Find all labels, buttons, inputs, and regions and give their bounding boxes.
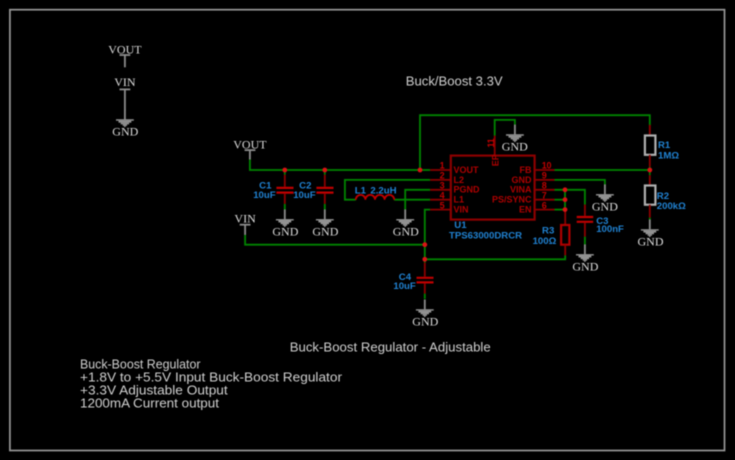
U1 pin 1 VOUT bbox=[430, 161, 479, 175]
svg-text:8: 8 bbox=[542, 181, 547, 191]
junction C4 / R3 bbox=[422, 257, 427, 262]
junction at C2 tap bbox=[322, 168, 327, 173]
power symbol VIN (main) bbox=[234, 211, 256, 235]
wire C4 to R3 bottom bbox=[425, 255, 565, 259]
IC U1 TPS63000DRCR body bbox=[449, 156, 535, 242]
svg-text:200kΩ: 200kΩ bbox=[657, 201, 686, 212]
wire C4 lower link bbox=[424, 294, 426, 299]
svg-text:PGND: PGND bbox=[454, 185, 481, 195]
capacitor C4 bbox=[393, 263, 433, 294]
svg-text:10uF: 10uF bbox=[393, 281, 416, 292]
svg-text:Buck/Boost 3.3V: Buck/Boost 3.3V bbox=[406, 73, 503, 88]
wire inductor to L1 pin bbox=[394, 199, 430, 201]
junction at C1 tap bbox=[282, 168, 287, 173]
U1 pin 5 VIN bbox=[430, 200, 468, 214]
description text block bbox=[80, 356, 343, 410]
U1 pin 3 PGND bbox=[430, 181, 480, 195]
ground GND (C1) bbox=[272, 209, 298, 238]
junction VIN rail / C4 bbox=[422, 242, 427, 247]
ground GND (pin9) bbox=[592, 184, 618, 213]
svg-text:VINA: VINA bbox=[510, 185, 532, 195]
svg-text:VOUT: VOUT bbox=[454, 165, 480, 175]
capacitor C2 bbox=[293, 170, 333, 204]
junction PS/SYNC bbox=[563, 197, 568, 202]
svg-text:VIN: VIN bbox=[114, 75, 136, 89]
wire EN stub bbox=[555, 209, 566, 211]
svg-text:GND: GND bbox=[638, 235, 664, 249]
U1 pin 9 GND bbox=[512, 171, 555, 185]
wire L2 to inductor bbox=[345, 180, 430, 200]
ground GND (R2) bbox=[638, 220, 664, 249]
capacitor C3 bbox=[577, 205, 624, 237]
svg-text:EP: EP bbox=[490, 154, 500, 166]
svg-text:9: 9 bbox=[542, 171, 547, 181]
svg-text:TPS63000DRCR: TPS63000DRCR bbox=[449, 230, 522, 241]
wire EP pad to ground bbox=[495, 120, 515, 136]
svg-text:GND: GND bbox=[572, 260, 598, 274]
ground GND (C4) bbox=[412, 300, 438, 329]
svg-text:2.2uH: 2.2uH bbox=[370, 186, 396, 197]
wire VINA to C3 bbox=[555, 190, 585, 205]
ground GND (EP pad) bbox=[502, 125, 528, 154]
svg-text:GND: GND bbox=[512, 175, 533, 185]
U1 pin 2 L2 bbox=[430, 171, 464, 185]
power symbol VIN (legend) bbox=[114, 75, 136, 110]
svg-text:FB: FB bbox=[520, 165, 532, 175]
svg-text:100nF: 100nF bbox=[596, 224, 624, 235]
svg-text:EN: EN bbox=[519, 205, 532, 215]
ground GND (PGND pin3) bbox=[393, 209, 419, 238]
svg-text:VIN: VIN bbox=[234, 211, 256, 225]
wire node A up to top rail bbox=[420, 115, 650, 170]
svg-text:L1: L1 bbox=[355, 186, 367, 197]
svg-text:L2: L2 bbox=[454, 175, 465, 185]
power symbol VOUT (main rail) bbox=[233, 138, 267, 160]
svg-text:1: 1 bbox=[440, 161, 445, 171]
power symbol VOUT (legend) bbox=[108, 43, 142, 68]
svg-text:2: 2 bbox=[440, 171, 445, 181]
capacitor C1 bbox=[253, 170, 293, 204]
inductor L1 2.2uH bbox=[355, 186, 397, 200]
wire FB to divider bbox=[555, 169, 650, 171]
svg-text:6: 6 bbox=[542, 200, 547, 210]
svg-text:4: 4 bbox=[440, 190, 445, 200]
svg-text:GND: GND bbox=[112, 125, 138, 139]
svg-text:11: 11 bbox=[486, 138, 496, 147]
svg-text:1200mA Current output: 1200mA Current output bbox=[80, 395, 219, 410]
wire EN chain vertical bbox=[564, 190, 566, 211]
wire R2 lower link bbox=[649, 218, 651, 220]
svg-text:10uF: 10uF bbox=[293, 190, 316, 201]
junction node A (pin1 / top rail) bbox=[418, 168, 423, 173]
wire pin9 GND bbox=[555, 180, 605, 185]
svg-text:GND: GND bbox=[272, 225, 298, 239]
U1 pin 8 VINA bbox=[510, 181, 555, 195]
wire PS/SYNC stub bbox=[555, 199, 566, 201]
junction FB divider bbox=[647, 168, 652, 173]
ground GND (legend) bbox=[112, 110, 138, 139]
svg-text:R1: R1 bbox=[658, 140, 671, 151]
resistor R3 bbox=[533, 211, 570, 255]
junction VINA bbox=[563, 187, 568, 192]
svg-text:GND: GND bbox=[412, 315, 438, 329]
svg-text:Buck-Boost Regulator - Adjusta: Buck-Boost Regulator - Adjustable bbox=[290, 339, 491, 354]
wire PGND to ground bbox=[405, 190, 430, 210]
wire C1 lower link bbox=[284, 204, 286, 210]
svg-text:GND: GND bbox=[592, 199, 618, 213]
svg-text:10: 10 bbox=[542, 161, 552, 171]
svg-text:GND: GND bbox=[502, 140, 528, 154]
svg-text:L1: L1 bbox=[454, 195, 465, 205]
resistor R2 bbox=[645, 170, 686, 218]
wire VIN rail bbox=[245, 235, 425, 245]
wire pin5 VIN riser to C4 bbox=[425, 210, 430, 263]
svg-text:5: 5 bbox=[440, 200, 445, 210]
wire C3 lower link bbox=[584, 237, 586, 245]
svg-text:1MΩ: 1MΩ bbox=[658, 150, 679, 161]
U1 pin 10 FB bbox=[520, 161, 555, 175]
U1 pin 7 PS/SYNC bbox=[492, 190, 555, 204]
ground GND (C2) bbox=[312, 209, 338, 238]
ground GND (C3) bbox=[572, 244, 598, 273]
junction EN bbox=[563, 207, 568, 212]
wire C2 lower link bbox=[324, 204, 326, 210]
svg-text:3: 3 bbox=[440, 181, 445, 191]
U1 pin 6 EN bbox=[519, 200, 555, 214]
svg-text:10uF: 10uF bbox=[253, 190, 276, 201]
svg-text:GND: GND bbox=[393, 225, 419, 239]
U1 pin 4 L1 bbox=[430, 190, 464, 204]
resistor R1 bbox=[645, 125, 679, 170]
svg-text:GND: GND bbox=[312, 225, 338, 239]
svg-text:7: 7 bbox=[542, 190, 547, 200]
svg-text:100Ω: 100Ω bbox=[533, 236, 557, 247]
U1 pin 11 EP bbox=[486, 136, 500, 167]
svg-text:PS/SYNC: PS/SYNC bbox=[492, 195, 532, 205]
wire VOUT to main rail corner bbox=[250, 160, 430, 171]
svg-text:VIN: VIN bbox=[454, 205, 469, 215]
